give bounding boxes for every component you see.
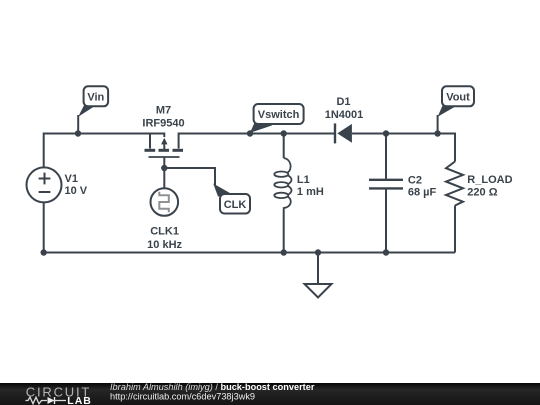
svg-text:CLK: CLK xyxy=(224,199,247,211)
svg-text:1N4001: 1N4001 xyxy=(325,109,364,121)
svg-text:C2: C2 xyxy=(408,174,422,186)
svg-text:IRF9540: IRF9540 xyxy=(142,118,184,130)
svg-text:Vout: Vout xyxy=(446,91,470,103)
svg-text:220 Ω: 220 Ω xyxy=(467,187,497,199)
svg-text:D1: D1 xyxy=(336,96,350,108)
svg-text:Vswitch: Vswitch xyxy=(258,109,300,121)
svg-text:LAB: LAB xyxy=(67,395,92,405)
svg-text:M7: M7 xyxy=(156,104,171,116)
svg-text:CLK1: CLK1 xyxy=(150,226,179,238)
svg-text:10 V: 10 V xyxy=(65,185,88,197)
svg-text:1 mH: 1 mH xyxy=(297,186,324,198)
svg-text:R_LOAD: R_LOAD xyxy=(467,174,512,186)
svg-text:10 kHz: 10 kHz xyxy=(147,239,182,251)
svg-text:V1: V1 xyxy=(65,173,78,185)
svg-text:68 µF: 68 µF xyxy=(408,187,437,199)
svg-text:L1: L1 xyxy=(297,174,310,186)
svg-text:http://circuitlab.com/c6dev738: http://circuitlab.com/c6dev738j3wk9 xyxy=(110,391,255,401)
svg-text:Vin: Vin xyxy=(87,91,104,103)
